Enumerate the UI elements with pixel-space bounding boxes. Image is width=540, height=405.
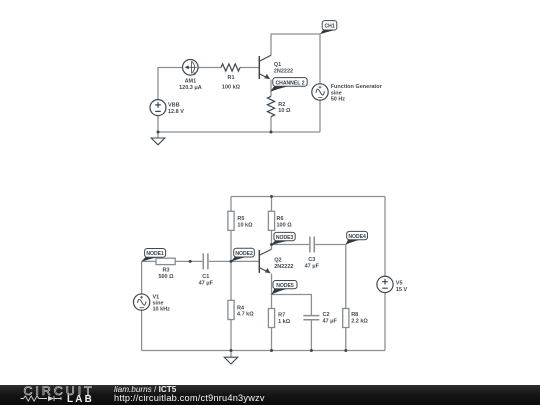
svg-text:47 μF: 47 μF <box>323 319 338 325</box>
svg-text:R6: R6 <box>277 216 284 222</box>
svg-text:V5: V5 <box>396 280 403 286</box>
svg-text:10 kΩ: 10 kΩ <box>237 223 253 229</box>
svg-text:2N2222: 2N2222 <box>274 69 293 75</box>
svg-text:VBB: VBB <box>168 103 180 109</box>
svg-text:12.8 V: 12.8 V <box>168 109 184 115</box>
svg-text:1 kΩ: 1 kΩ <box>278 319 291 325</box>
svg-text:LAB: LAB <box>67 394 94 405</box>
svg-text:100 kΩ: 100 kΩ <box>222 84 241 90</box>
svg-text:4.7 kΩ: 4.7 kΩ <box>237 312 254 318</box>
svg-text:NODE1: NODE1 <box>146 251 164 257</box>
svg-text:R7: R7 <box>278 313 285 319</box>
svg-text:500 Ω: 500 Ω <box>158 274 174 280</box>
svg-text:NODE4: NODE4 <box>348 234 366 240</box>
svg-text:47 μF: 47 μF <box>199 280 214 286</box>
svg-text:10 kHz: 10 kHz <box>153 307 171 313</box>
svg-text:CHANNEL 2: CHANNEL 2 <box>275 80 304 86</box>
svg-text:R1: R1 <box>227 75 234 81</box>
svg-text:47 μF: 47 μF <box>305 264 320 270</box>
svg-text:2.2 kΩ: 2.2 kΩ <box>351 319 368 325</box>
svg-text:R4: R4 <box>237 305 245 311</box>
svg-text:C2: C2 <box>323 312 330 318</box>
svg-text:Function Generator: Function Generator <box>331 84 383 90</box>
svg-text:V1: V1 <box>153 295 160 301</box>
svg-text:Q2: Q2 <box>274 258 281 264</box>
svg-text:R2: R2 <box>278 102 285 108</box>
svg-text:CH1: CH1 <box>324 24 334 30</box>
svg-text:AM1: AM1 <box>185 79 197 85</box>
svg-text:NODE2: NODE2 <box>235 251 253 257</box>
svg-text:120.3 μA: 120.3 μA <box>179 85 202 91</box>
svg-text:C3: C3 <box>308 257 315 263</box>
svg-text:NODE5: NODE5 <box>276 283 294 289</box>
svg-text:C1: C1 <box>202 274 209 280</box>
svg-text:sine: sine <box>331 90 342 96</box>
svg-text:100 Ω: 100 Ω <box>277 223 293 229</box>
svg-text:2N2222: 2N2222 <box>274 264 293 270</box>
svg-text:sine: sine <box>153 301 164 307</box>
svg-text:NODE3: NODE3 <box>276 235 294 241</box>
svg-text:R3: R3 <box>162 267 169 273</box>
svg-text:R5: R5 <box>237 216 244 222</box>
svg-text:50 Hz: 50 Hz <box>331 96 346 102</box>
svg-text:15 V: 15 V <box>396 287 408 293</box>
svg-text:R8: R8 <box>351 312 358 318</box>
svg-text:10 Ω: 10 Ω <box>278 108 291 114</box>
svg-text:Q1: Q1 <box>274 62 281 68</box>
